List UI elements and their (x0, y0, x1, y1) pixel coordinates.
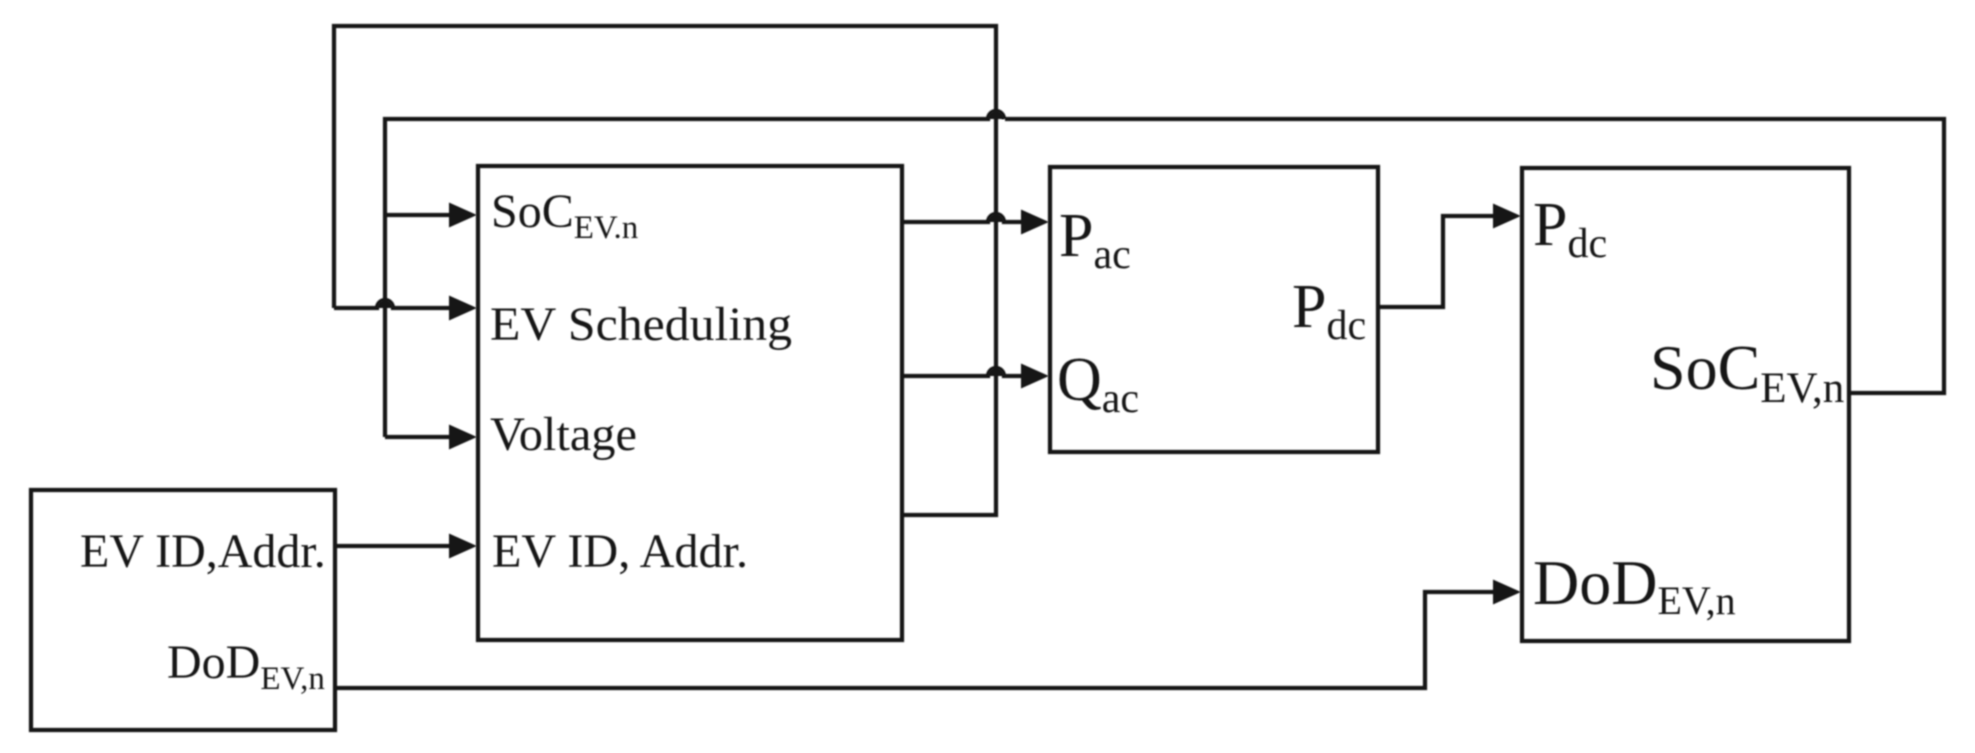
wire arrow into SoC input y215 (385, 213, 452, 217)
wire B1 DoD to B4 (335, 592, 1497, 688)
wire feedback B4 SoC output y393 up x1944 over y119 down x385 (1005, 119, 1944, 393)
wire B2 to B3 Pac y222 with hop at x996 (902, 214, 1024, 222)
svg-text:EV ID,Addr.: EV ID,Addr. (80, 525, 326, 578)
box B4 battery model (1522, 168, 1849, 641)
arrowhead into B2 EV ID (449, 534, 477, 559)
hop bump at x996 y376 (988, 368, 1004, 376)
box B3 AC-DC converter (1050, 167, 1378, 452)
wire hop at x996 on y119 (385, 111, 1004, 437)
box B1 EV info source (31, 490, 335, 730)
arrowhead into B3 Pac (1021, 210, 1049, 235)
wire feedback B2 output y515 up over top y26 down x334 (334, 26, 996, 515)
arrowhead into B4 Pdc (1493, 204, 1521, 229)
svg-text:EV Scheduling: EV Scheduling (490, 298, 792, 351)
box B2 EV scheduling controller (478, 166, 902, 640)
arrowhead into B3 Qac (1021, 364, 1049, 389)
arrowhead into B2 Voltage (449, 425, 477, 450)
wire arrow into Voltage input y437 (385, 435, 452, 439)
hop bump at x996 y222 (988, 214, 1004, 222)
wire arrow into EV Scheduling with hop at x385 (334, 300, 452, 308)
arrowhead into B4 DoD (1493, 580, 1521, 605)
arrowhead into B2 SoC (449, 203, 477, 228)
wire B3 Pdc output to B4 (1378, 216, 1496, 307)
hop bump at x385 y308 (377, 300, 393, 308)
hop bump at x996 y119 (988, 111, 1004, 119)
svg-text:EV ID, Addr.: EV ID, Addr. (492, 525, 748, 578)
arrowhead into B2 EV Scheduling (449, 296, 477, 321)
svg-text:Voltage: Voltage (490, 408, 637, 461)
wire B1 EV ID to B2 (335, 544, 452, 548)
wire B2 to B3 Qac y376 with hop at x996 (902, 368, 1024, 376)
